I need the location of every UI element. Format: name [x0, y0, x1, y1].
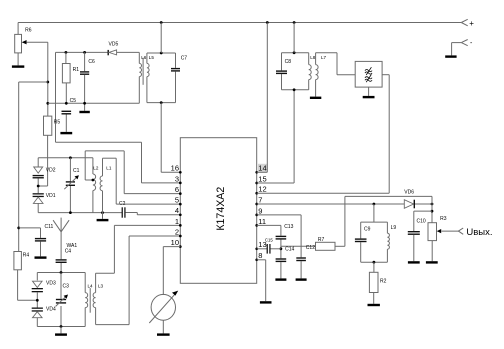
svg-text:VD3: VD3: [46, 280, 56, 286]
svg-text:C14: C14: [285, 247, 294, 253]
svg-text:R2: R2: [380, 278, 387, 284]
svg-text:К174ХА2: К174ХА2: [215, 187, 227, 231]
svg-text:VD5: VD5: [109, 41, 119, 47]
svg-text:12: 12: [258, 185, 266, 194]
svg-text:C1: C1: [73, 168, 80, 174]
svg-text:L9: L9: [391, 225, 397, 231]
svg-text:L4: L4: [88, 284, 94, 289]
svg-text:VD4: VD4: [46, 307, 56, 313]
svg-text:R1: R1: [73, 67, 80, 73]
svg-text:8: 8: [258, 251, 262, 260]
svg-text:4: 4: [175, 206, 179, 215]
svg-text:11: 11: [258, 217, 266, 226]
svg-text:R7: R7: [318, 237, 325, 243]
svg-text:Uвых.: Uвых.: [466, 227, 492, 238]
svg-text:3: 3: [175, 174, 179, 183]
svg-text:С12: С12: [306, 245, 315, 251]
svg-text:L7: L7: [321, 55, 327, 60]
svg-text:L3: L3: [98, 284, 104, 289]
svg-text:R3: R3: [440, 216, 447, 222]
svg-text:L1: L1: [106, 165, 112, 170]
svg-text:1: 1: [175, 217, 179, 226]
svg-text:5: 5: [175, 196, 179, 205]
svg-text:R4: R4: [23, 253, 30, 259]
svg-text:14: 14: [258, 164, 266, 173]
svg-text:+: +: [469, 19, 474, 28]
svg-text:C7: C7: [181, 55, 188, 61]
svg-text:VD1: VD1: [46, 193, 56, 199]
svg-text:VD2: VD2: [46, 167, 56, 173]
svg-text:C6: C6: [88, 59, 95, 65]
svg-text:L5: L5: [149, 55, 155, 60]
svg-text:C4: C4: [65, 248, 72, 254]
svg-text:16: 16: [171, 164, 179, 173]
svg-text:9: 9: [258, 206, 262, 215]
svg-text:L2: L2: [93, 165, 99, 170]
svg-text:15: 15: [258, 174, 266, 183]
svg-text:C11: C11: [45, 224, 54, 230]
svg-text:C15: C15: [265, 238, 273, 243]
svg-text:10: 10: [171, 238, 179, 247]
svg-text:C8: C8: [285, 59, 292, 65]
svg-text:C5: C5: [70, 98, 77, 104]
svg-text:L6: L6: [141, 55, 147, 60]
svg-text:C10: C10: [417, 219, 426, 225]
svg-text:C13: C13: [284, 224, 293, 230]
svg-text:L8: L8: [310, 55, 316, 60]
svg-text:7: 7: [258, 195, 262, 204]
svg-text:C3: C3: [63, 284, 70, 290]
svg-text:6: 6: [175, 185, 179, 194]
svg-text:R5: R5: [54, 120, 61, 126]
svg-text:C9: C9: [364, 227, 371, 233]
svg-text:R6: R6: [25, 28, 32, 34]
svg-text:VD6: VD6: [404, 189, 414, 195]
svg-text:2: 2: [175, 227, 179, 236]
